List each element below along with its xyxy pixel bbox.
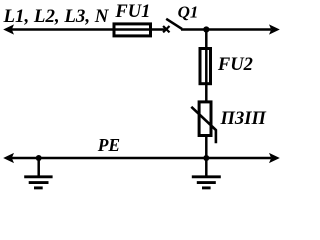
surge protector SPD box xyxy=(199,102,211,136)
node junction PE left xyxy=(36,155,42,161)
wire top bus left arrow xyxy=(3,24,14,34)
wire SPD to PE xyxy=(205,136,208,158)
svg-text:PE: PE xyxy=(97,135,120,155)
surge protector varistor diagonal xyxy=(191,107,216,144)
svg-text:FU2: FU2 xyxy=(217,55,253,75)
node junction top xyxy=(203,26,209,32)
fuse FU1 xyxy=(114,24,151,36)
svg-text:ПЗІП: ПЗІП xyxy=(220,109,267,129)
fuse FU2 xyxy=(200,49,211,84)
wire PE bus right arrow xyxy=(269,153,280,163)
wire PE bus xyxy=(11,157,271,160)
switch Q1 fixed contact x-mark xyxy=(163,26,169,32)
ground left bars xyxy=(24,177,52,188)
ground right bars xyxy=(192,177,221,188)
node junction PE right xyxy=(203,155,209,161)
svg-text:FU1: FU1 xyxy=(114,2,150,22)
wire junction to FU2 xyxy=(205,30,208,50)
switch Q1 blade xyxy=(166,19,182,29)
ground left stem xyxy=(37,158,40,177)
ground right stem xyxy=(205,158,208,177)
wire fuse to switch xyxy=(150,28,165,31)
wire top bus left segment xyxy=(11,28,114,31)
fuse FU1 internal wire xyxy=(114,28,152,31)
wire PE bus left arrow xyxy=(3,153,14,163)
fuse FU2 internal wire xyxy=(205,47,208,85)
wire FU2 to SPD xyxy=(205,85,208,102)
wire top bus right segment xyxy=(181,28,271,31)
svg-text:Q1: Q1 xyxy=(178,2,199,21)
wire top bus right arrow xyxy=(269,24,280,34)
svg-text:L1, L2, L3, N: L1, L2, L3, N xyxy=(3,6,110,27)
